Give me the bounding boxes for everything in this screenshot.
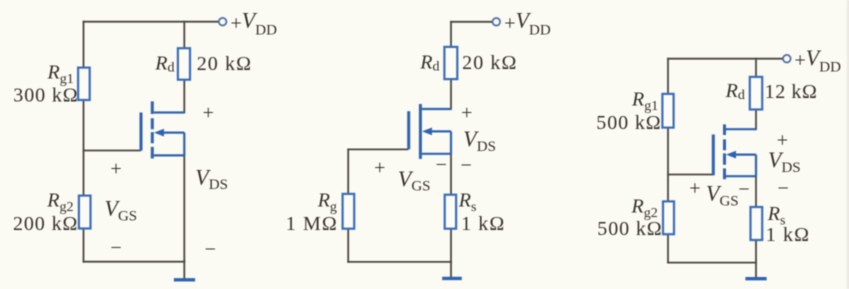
terminal +VDD C3 (783, 55, 791, 63)
right page-edge shading (845, 0, 849, 289)
resistor Rd1 (178, 48, 190, 79)
wire C2 ground stub (450, 262, 452, 277)
wire C1 bottom rail (84, 261, 185, 263)
wire C1 source vertical (183, 155, 185, 261)
svg-text:+: + (461, 102, 472, 124)
transistor Q3 body-source tie (755, 155, 757, 177)
resistor Rd2 (444, 47, 457, 79)
svg-text:1 kΩ: 1 kΩ (461, 213, 505, 235)
wire C3 ground stub (755, 263, 757, 278)
terminal +VDD C2 (493, 18, 501, 26)
svg-text:+: + (689, 177, 700, 199)
resistor Rg1 C3 (662, 94, 673, 128)
wire C2 gate wire (348, 148, 407, 150)
wire C2 top rail (451, 21, 492, 23)
wire C3 gate wire (668, 174, 713, 176)
wire C1 left vertical (83, 22, 85, 262)
resistor Rg (343, 194, 355, 229)
transistor Q2 channel (solid, depletion) (419, 104, 422, 159)
svg-text:+: + (203, 102, 214, 124)
resistor Rg2 (79, 196, 91, 229)
svg-text:20 kΩ: 20 kΩ (462, 52, 517, 74)
transistor Q3 drain stub (726, 128, 756, 130)
resistor Rd3 (750, 77, 762, 110)
transistor Q1 channel dashes (151, 101, 154, 158)
wire C3 drain vertical (755, 59, 757, 130)
transistor Q2 drain stub (422, 108, 451, 110)
svg-text:300 kΩ: 300 kΩ (13, 85, 78, 107)
transistor Q1 gate line (140, 113, 143, 151)
wire C2 source vertical (450, 154, 452, 262)
svg-text:−: − (110, 237, 121, 259)
wire C1 gate wire (84, 150, 141, 152)
transistor Q3 channel dashes (723, 124, 726, 179)
svg-text:1 MΩ: 1 MΩ (286, 213, 338, 235)
transistor Q2 arrow (431, 130, 452, 132)
wire C3 bottom rail (668, 262, 756, 264)
transistor Q1 source stub (154, 154, 185, 156)
transistor Q2 body-source tie (450, 131, 452, 153)
transistor Q2 source stub (422, 153, 451, 155)
wire C2 left vertical (347, 149, 349, 262)
transistor Q3 source stub (726, 175, 756, 177)
wire C1 drain vertical (183, 22, 185, 113)
wire C3 top rail (668, 58, 783, 60)
svg-text:−: − (738, 178, 749, 200)
transistor Q3 gate line (712, 135, 715, 176)
svg-text:200 kΩ: 200 kΩ (13, 213, 78, 235)
wire C3 source vertical (755, 176, 757, 262)
resistor Rg1 (78, 68, 90, 100)
wire C2 drain vertical (450, 22, 452, 109)
svg-text:−: − (436, 154, 447, 176)
resistor Rg2 C3 (663, 201, 674, 234)
svg-text:−: − (205, 239, 216, 261)
svg-text:20 kΩ: 20 kΩ (197, 53, 252, 75)
wire C1 ground stub (183, 262, 185, 279)
svg-text:+: + (374, 157, 385, 179)
transistor Q1 body-source tie (183, 133, 185, 156)
svg-text:500 kΩ: 500 kΩ (596, 112, 661, 134)
wire C2 bottom rail (348, 261, 451, 263)
transistor Q2 gate line (407, 111, 410, 149)
ground C3 (745, 277, 766, 280)
svg-text:+: + (110, 158, 121, 180)
svg-text:−: − (461, 154, 472, 176)
svg-text:−: − (778, 178, 789, 200)
resistor Rs3 (751, 207, 763, 240)
ground C1 (174, 278, 195, 281)
transistor Q1 drain stub (154, 111, 185, 113)
svg-text:500 kΩ: 500 kΩ (597, 218, 662, 240)
wire C1 top rail (84, 21, 219, 23)
ground C2 (442, 277, 462, 280)
transistor Q1 arrow (163, 132, 185, 134)
resistor Rs2 (445, 195, 456, 229)
wire C3 left vertical (667, 59, 669, 263)
terminal +VDD C1 (219, 18, 227, 26)
svg-text:12 kΩ: 12 kΩ (765, 81, 818, 103)
transistor Q3 arrow (735, 154, 757, 156)
svg-text:1 kΩ: 1 kΩ (766, 224, 810, 246)
